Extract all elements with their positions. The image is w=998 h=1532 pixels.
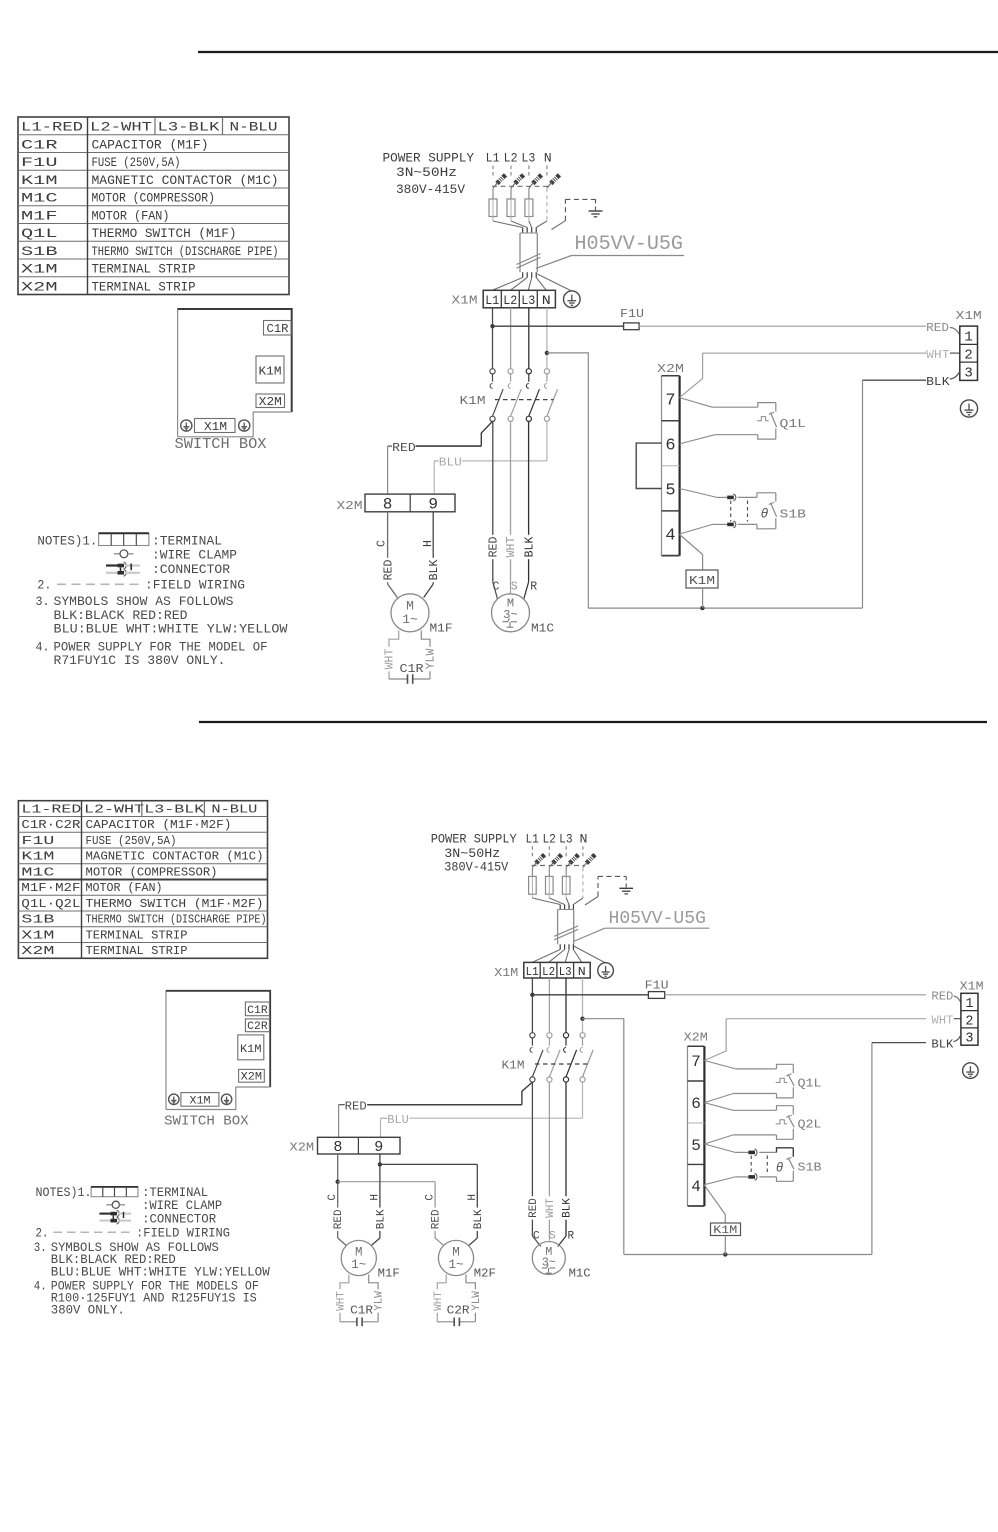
svg-text:S1B: S1B [798, 1161, 822, 1174]
svg-text:FUSE (250V,5A): FUSE (250V,5A) [86, 834, 177, 848]
svg-text:BLU: BLU [387, 1114, 409, 1127]
svg-text:L3-BLK: L3-BLK [158, 120, 220, 135]
svg-text:TERMINAL STRIP: TERMINAL STRIP [92, 262, 196, 277]
wire from N junction to coil loop (bottom) [583, 1019, 624, 1255]
svg-text:WHT: WHT [505, 537, 518, 558]
svg-text:MAGNETIC CONTACTOR (M1C): MAGNETIC CONTACTOR (M1C) [86, 850, 264, 864]
earth symbol left of X1M box [181, 420, 192, 431]
svg-text:L1: L1 [486, 151, 500, 166]
capacitor C1R wiring (bottom) [340, 1274, 349, 1321]
contactor K1M box in switch box (bottom) [238, 1035, 264, 1060]
svg-text:4.: 4. [34, 1279, 47, 1293]
svg-text:L1: L1 [525, 833, 539, 847]
wire RED from F1U to X1M-1 (bottom) [665, 994, 926, 996]
svg-text:RED: RED [926, 321, 949, 335]
svg-text:R71FUY1C IS 380V ONLY.: R71FUY1C IS 380V ONLY. [54, 653, 226, 668]
svg-text:L1-RED: L1-RED [21, 120, 83, 135]
svg-text:8: 8 [383, 495, 393, 513]
svg-text:9: 9 [428, 495, 438, 513]
svg-text:M1C: M1C [21, 191, 58, 206]
svg-text:5: 5 [691, 1137, 701, 1155]
earth terminal beside X1M (bottom) [598, 963, 614, 979]
wire N from X1M down to contactor (top) [546, 308, 548, 369]
svg-text:RED: RED [528, 1198, 540, 1218]
field wiring dashed bus (top) [492, 185, 550, 187]
field wiring lead L2 (bottom) [548, 846, 550, 856]
svg-text:R: R [530, 581, 537, 594]
svg-text:RED: RED [487, 537, 500, 558]
svg-text:L2: L2 [542, 965, 555, 979]
fan motor M1F (bottom) [341, 1240, 376, 1275]
wire N from X1M down to contactor (bottom) [582, 978, 584, 1033]
svg-text:K1M: K1M [259, 366, 282, 379]
svg-text:RED: RED [931, 991, 953, 1004]
connector symbol [106, 564, 120, 566]
svg-text:K1M: K1M [240, 1044, 262, 1056]
svg-text:RED: RED [392, 441, 416, 455]
fan motor M1F (top) [391, 594, 429, 632]
wire L1 from X1M down to contactor (bottom) [531, 978, 533, 1033]
svg-text:L3: L3 [559, 833, 573, 847]
capacitor C2R wiring (bottom) [437, 1274, 446, 1321]
svg-text:4: 4 [691, 1178, 701, 1196]
supply cable sheath (top) [493, 221, 523, 228]
svg-text:N: N [580, 833, 588, 847]
earth symbol right of X1M box (bottom) [221, 1094, 231, 1104]
svg-text:X2M: X2M [657, 362, 684, 376]
wire RED from contactor to X2M-8 (top) [481, 421, 492, 446]
svg-text:K1M: K1M [460, 394, 486, 408]
terminal X2M box in switch box [256, 394, 285, 408]
svg-text:X1M: X1M [204, 421, 227, 434]
svg-text:5: 5 [665, 482, 675, 501]
svg-text:Q1L·Q2L: Q1L·Q2L [21, 897, 80, 911]
wire C RED from X2M-8 to fan M1F (bottom) [337, 1154, 339, 1238]
svg-text:N: N [544, 151, 552, 166]
svg-text:1~: 1~ [448, 1258, 463, 1272]
svg-text:S1B: S1B [21, 244, 58, 259]
svg-text:WHT: WHT [545, 1198, 557, 1218]
svg-text:S1B: S1B [21, 913, 54, 927]
svg-text:MAGNETIC CONTACTOR (M1C): MAGNETIC CONTACTOR (M1C) [92, 173, 279, 188]
svg-text:X2M: X2M [337, 499, 363, 513]
field wiring lead L2 (top) [510, 166, 512, 177]
svg-text:H: H [370, 1194, 382, 1201]
svg-text:X2M: X2M [21, 279, 58, 294]
svg-text:H: H [467, 1194, 479, 1201]
node L1/F1U junction (bottom) [530, 993, 534, 997]
svg-text:N-BLU: N-BLU [230, 120, 278, 135]
svg-text:1: 1 [964, 330, 972, 346]
svg-text:C1R: C1R [400, 662, 424, 676]
svg-text:FUSE (250V,5A): FUSE (250V,5A) [92, 155, 181, 170]
svg-text:YLW: YLW [374, 1291, 386, 1311]
svg-text:C: C [376, 540, 389, 547]
svg-text:NOTES)1.: NOTES)1. [36, 1186, 92, 1200]
capacitor C1R box in switch box [264, 321, 292, 336]
svg-text:6: 6 [665, 436, 675, 455]
svg-text:YLW: YLW [471, 1291, 483, 1311]
svg-text:YLW: YLW [425, 649, 438, 670]
svg-text:F1U: F1U [620, 307, 644, 321]
svg-text:RED: RED [333, 1209, 345, 1229]
svg-text::FIELD WIRING: :FIELD WIRING [136, 1226, 230, 1240]
fuse F1U (bottom) [532, 994, 648, 996]
svg-text:X1M: X1M [956, 309, 982, 323]
svg-text:WHT: WHT [336, 1291, 348, 1311]
svg-text:K1M: K1M [21, 850, 54, 864]
svg-text:BLU:BLUE WHT:WHITE YLW:YELLOW: BLU:BLUE WHT:WHITE YLW:YELLOW [51, 1266, 270, 1280]
svg-text:2.: 2. [36, 1226, 49, 1240]
svg-text:L2-WHT: L2-WHT [84, 802, 144, 816]
svg-text:WHT: WHT [384, 649, 397, 670]
wire WHT from X1M-2 to X2M-7 (top) [703, 352, 926, 354]
svg-text:θ: θ [776, 1161, 784, 1175]
thermo switch S1B with connectors (bottom) [704, 1144, 735, 1152]
svg-text:N: N [542, 293, 551, 308]
svg-text:R: R [567, 1231, 574, 1243]
wire from N junction to coil loop (top) [547, 353, 588, 608]
wire BLU from contactor N to X2M-9 (top) [546, 421, 548, 461]
svg-text:CAPACITOR (M1F·M2F): CAPACITOR (M1F·M2F) [86, 818, 232, 832]
legend table frame [18, 801, 267, 959]
svg-text:M1F: M1F [21, 208, 58, 223]
switch box outline (top diagram) [178, 309, 292, 437]
svg-text:L3: L3 [559, 965, 572, 979]
svg-text:WHT: WHT [931, 1014, 953, 1027]
svg-text:C2R: C2R [447, 1305, 470, 1318]
svg-text:X2M: X2M [241, 1072, 263, 1084]
svg-text:3.: 3. [36, 594, 50, 609]
capacitor C1R box in switch box (bottom) [245, 1002, 269, 1016]
X2M link bracket 6-5 (top) [636, 443, 661, 488]
svg-text:C1R: C1R [267, 323, 289, 336]
top horizontal rule [198, 51, 998, 53]
svg-text:BLK: BLK [931, 1038, 953, 1051]
protective earth dashed path (bottom) [597, 876, 599, 896]
svg-text:BLK: BLK [375, 1209, 387, 1229]
coil return wire bottom (bottom) [624, 1254, 872, 1256]
switch box outline (bottom diagram) [166, 991, 270, 1110]
node K1M coil junction (top) [700, 606, 704, 610]
field wiring lead L1 (bottom) [531, 846, 533, 856]
svg-text:RED: RED [431, 1209, 443, 1229]
field wiring lead L1 (top) [492, 166, 494, 177]
terminal X2M box in switch box (bottom) [239, 1069, 265, 1082]
contactor coil K1M (top) [680, 535, 703, 555]
wire H BLK from X2M-9 to fan motor (top) [432, 512, 434, 584]
svg-text:7: 7 [665, 391, 675, 410]
svg-text:H05VV-U5G: H05VV-U5G [575, 233, 684, 256]
svg-text:BLK: BLK [428, 560, 441, 581]
svg-text:BLK: BLK [926, 375, 950, 389]
svg-text:X1M: X1M [21, 928, 54, 942]
svg-text::TERMINAL: :TERMINAL [142, 1186, 208, 1200]
node L1/F1U junction (top) [490, 324, 494, 328]
svg-text:X2M: X2M [21, 944, 54, 958]
svg-text:L3: L3 [521, 293, 535, 308]
disconnect terminal L1 (bottom) [531, 867, 533, 876]
earth terminal below X1M (top) [960, 400, 977, 417]
svg-text:MOTOR (COMPRESSOR): MOTOR (COMPRESSOR) [92, 191, 216, 206]
svg-text:X1M: X1M [960, 981, 984, 994]
svg-text:3: 3 [964, 365, 972, 381]
earth symbol left of X1M box (bottom) [169, 1094, 179, 1104]
svg-text:X1M: X1M [494, 967, 518, 980]
svg-text:MOTOR (FAN): MOTOR (FAN) [86, 881, 163, 895]
svg-text:NOTES)1.: NOTES)1. [37, 534, 97, 549]
middle horizontal rule [199, 721, 987, 723]
svg-text:M1C: M1C [21, 865, 54, 879]
svg-text:X1M: X1M [190, 1095, 211, 1107]
capacitor C2R (bottom) [453, 1318, 455, 1327]
cable fan-out to X1M (top) [522, 272, 524, 277]
supply cable sheath (bottom) [532, 898, 560, 905]
magnetic contactor K1M main contacts (bottom) [530, 1033, 535, 1038]
wire WHT from X1M-2 to X2M-7 (bottom) [726, 1018, 926, 1020]
svg-text:Q1L: Q1L [780, 417, 807, 431]
wire BLK from riser to X1M-3 (top) [863, 379, 927, 381]
magnetic contactor K1M main contacts (top) [490, 369, 495, 374]
svg-text:M2F: M2F [474, 1268, 496, 1281]
svg-text:6: 6 [691, 1095, 701, 1113]
svg-text:MOTOR (COMPRESSOR): MOTOR (COMPRESSOR) [86, 865, 218, 879]
field wiring lead N (top) [546, 166, 548, 177]
svg-text:C2R: C2R [247, 1021, 268, 1033]
svg-text:L3: L3 [521, 151, 535, 166]
svg-text:S: S [511, 581, 518, 594]
wire RED from contactor to X2M-8 (bottom) [522, 1082, 533, 1105]
svg-text:3: 3 [965, 1032, 973, 1047]
svg-text:K1M: K1M [502, 1059, 525, 1072]
svg-text:2: 2 [964, 347, 972, 363]
svg-text:L2: L2 [542, 833, 556, 847]
svg-text::TERMINAL: :TERMINAL [152, 534, 222, 549]
svg-text:3N~50Hz: 3N~50Hz [396, 165, 457, 180]
svg-text:H: H [422, 540, 435, 547]
svg-text:4: 4 [665, 527, 675, 546]
svg-text:380V-415V: 380V-415V [396, 182, 465, 197]
svg-text:F1U: F1U [21, 834, 54, 848]
earth terminal below X1M (bottom) [963, 1063, 979, 1079]
svg-text:L2-WHT: L2-WHT [90, 120, 152, 135]
thermo switch Q1L (top) [680, 398, 713, 408]
svg-text:S: S [549, 1231, 556, 1243]
svg-text:CAPACITOR (M1F): CAPACITOR (M1F) [92, 137, 209, 152]
contactor K1M box in switch box [256, 356, 284, 383]
svg-text:TERMINAL STRIP: TERMINAL STRIP [86, 944, 188, 958]
svg-text:9: 9 [374, 1139, 383, 1156]
wire C RED branch to fan M2F (bottom) [338, 1181, 435, 1183]
thermo switch Q1L (bottom) [704, 1061, 735, 1069]
thermo switch S1B with connectors (top) [680, 489, 717, 498]
svg-text:N-BLU: N-BLU [211, 802, 257, 816]
wire L1 from X1M down to contactor (top) [492, 308, 494, 369]
svg-text:θ: θ [761, 507, 769, 522]
node N branch junction (top) [545, 351, 549, 355]
svg-text:380V-415V: 380V-415V [444, 861, 508, 875]
wire BLK riser to X1M-3 (top) [862, 380, 864, 608]
svg-text:Q1L: Q1L [21, 226, 58, 241]
cable fan-out to X1M (bottom) [559, 944, 561, 949]
svg-text:L1-RED: L1-RED [21, 802, 81, 816]
svg-text:7: 7 [691, 1053, 701, 1071]
svg-text:C: C [493, 581, 500, 594]
svg-text:SWITCH BOX: SWITCH BOX [175, 437, 267, 453]
svg-text:K1M: K1M [713, 1225, 737, 1237]
svg-text:4.: 4. [36, 639, 50, 654]
fan motor M2F (bottom) [438, 1240, 473, 1275]
svg-text:SWITCH BOX: SWITCH BOX [164, 1114, 249, 1130]
wire L3 from X1M down to contactor (bottom) [565, 978, 567, 1033]
svg-text:C1R·C2R: C1R·C2R [21, 818, 80, 832]
svg-text::CONNECTOR: :CONNECTOR [142, 1213, 216, 1227]
field wiring lead L3 (top) [528, 166, 530, 177]
fuse F1U (top) [493, 325, 624, 327]
svg-text:H05VV-U5G: H05VV-U5G [609, 908, 706, 929]
svg-text:L2: L2 [504, 151, 518, 166]
svg-text:BLK: BLK [473, 1209, 485, 1229]
wire L3 from X1M down to contactor (top) [528, 308, 530, 369]
svg-text::WIRE CLAMP: :WIRE CLAMP [142, 1199, 222, 1213]
svg-text:BLU: BLU [439, 456, 462, 470]
svg-text:THERMO SWITCH (DISCHARGE PIPE): THERMO SWITCH (DISCHARGE PIPE) [92, 244, 279, 259]
svg-text:3~: 3~ [503, 608, 517, 622]
svg-text:K1M: K1M [689, 575, 715, 588]
svg-text:L1: L1 [526, 965, 539, 979]
svg-text:X2M: X2M [259, 396, 282, 409]
svg-text:X2M: X2M [290, 1142, 315, 1155]
svg-text:THERMO SWITCH (DISCHARGE PIPE): THERMO SWITCH (DISCHARGE PIPE) [86, 913, 267, 927]
svg-text:L2: L2 [503, 293, 517, 308]
contactor coil K1M (bottom) [704, 1185, 725, 1214]
earth symbol at supply (top) [589, 210, 603, 212]
svg-text:Q1L: Q1L [798, 1077, 822, 1090]
svg-text:BLU:BLUE WHT:WHITE YLW:YELLOW: BLU:BLUE WHT:WHITE YLW:YELLOW [54, 621, 288, 636]
svg-text:F1U: F1U [21, 155, 58, 170]
capacitor C1R wiring (top) [389, 631, 399, 680]
disconnect terminal L2 (bottom) [548, 867, 550, 876]
node branch to M2F H (bottom) [378, 1162, 382, 1166]
svg-text:Q2L: Q2L [798, 1119, 822, 1132]
wire RED from F1U to X1M-1 (top) [639, 325, 926, 327]
svg-text:3.: 3. [34, 1241, 47, 1255]
svg-text:C1R: C1R [350, 1305, 373, 1318]
svg-text:X1M: X1M [21, 262, 58, 277]
svg-text:M1C: M1C [531, 621, 554, 635]
capacitor C1R (top) [407, 674, 409, 684]
disconnect terminal L2 (top) [510, 188, 512, 199]
svg-text:POWER SUPPLY: POWER SUPPLY [383, 151, 475, 166]
svg-text:WHT: WHT [433, 1291, 445, 1311]
wire clamp symbol (bottom) [106, 1204, 112, 1206]
wire L2 from X1M down to contactor (bottom) [548, 978, 550, 1033]
thermo switch Q2L (bottom) [704, 1103, 733, 1111]
svg-text:M1F: M1F [430, 621, 453, 635]
svg-text:L3-BLK: L3-BLK [144, 802, 205, 816]
disconnect terminal L3 (top) [528, 188, 530, 199]
svg-text:L1: L1 [485, 293, 499, 308]
svg-text:M1F·M2F: M1F·M2F [21, 881, 80, 895]
wire BLK riser to X1M-3 (bottom) [871, 1043, 873, 1255]
svg-text:C: C [327, 1194, 339, 1201]
svg-text:1~: 1~ [351, 1258, 366, 1272]
svg-text:S1B: S1B [780, 508, 807, 522]
svg-text:C1R: C1R [247, 1005, 268, 1017]
wire C RED from X2M-8 to fan motor (top) [387, 512, 389, 584]
node N branch junction (bottom) [580, 1017, 584, 1021]
svg-text::WIRE CLAMP: :WIRE CLAMP [152, 548, 237, 563]
neutral dashed lead (bottom) [582, 867, 584, 898]
svg-text:1: 1 [965, 997, 973, 1012]
coil return wire bottom (top) [588, 607, 862, 609]
svg-text:TERMINAL STRIP: TERMINAL STRIP [92, 279, 196, 294]
node K1M coil junction (bottom) [723, 1252, 727, 1256]
svg-text:M1F: M1F [378, 1268, 400, 1281]
node branch to M2F C (bottom) [336, 1180, 340, 1184]
svg-text:C: C [533, 1231, 540, 1243]
compressor motor M1C (bottom) [532, 1242, 565, 1275]
field wiring lead L3 (bottom) [565, 846, 567, 856]
svg-text:C: C [425, 1194, 437, 1201]
disconnect terminal L3 (bottom) [565, 867, 567, 876]
capacitor C2R box in switch box (bottom) [245, 1019, 269, 1032]
svg-text:MOTOR (FAN): MOTOR (FAN) [92, 208, 170, 223]
svg-text:3N~50Hz: 3N~50Hz [444, 847, 500, 861]
legend table frame [18, 117, 289, 295]
svg-text:380V ONLY.: 380V ONLY. [51, 1303, 125, 1317]
connector symbol (bottom) [99, 1213, 112, 1215]
svg-text:F1U: F1U [645, 980, 669, 993]
svg-text:1~: 1~ [402, 612, 418, 627]
wire BLK from riser to X1M-3 (bottom) [872, 1042, 926, 1044]
svg-text:RED: RED [382, 560, 395, 581]
compressor motor M1C (top) [492, 594, 530, 632]
svg-text:SYMBOLS SHOW AS FOLLOWS: SYMBOLS SHOW AS FOLLOWS [54, 594, 234, 609]
wire H BLK from X2M-9 to fan M1F (bottom) [379, 1154, 381, 1238]
svg-text::FIELD WIRING: :FIELD WIRING [145, 578, 245, 593]
wire L2 from X1M down to contactor (top) [510, 308, 512, 369]
terminal X1M box in switch box (bottom) [181, 1093, 219, 1107]
earth terminal beside X1M (top) [564, 291, 581, 308]
neutral dashed lead (top) [546, 188, 548, 221]
compressor wires RED WHT BLK (bottom) [531, 1082, 533, 1236]
earth symbol at supply (bottom) [619, 887, 633, 889]
wire BLU from contactor N to X2M-9 (bottom) [582, 1082, 584, 1118]
terminal X1M box in switch box [195, 419, 236, 433]
wire clamp symbol [114, 553, 120, 555]
field wiring lead N (bottom) [582, 846, 584, 856]
capacitor C1R (bottom) [356, 1318, 358, 1327]
svg-text:BLK: BLK [562, 1198, 574, 1218]
svg-text:K1M: K1M [21, 173, 58, 188]
svg-text:THERMO SWITCH (M1F): THERMO SWITCH (M1F) [92, 226, 237, 241]
svg-text:TERMINAL STRIP: TERMINAL STRIP [86, 928, 188, 942]
svg-text:2: 2 [965, 1014, 973, 1029]
svg-text:C1R: C1R [21, 137, 58, 152]
svg-text::CONNECTOR: :CONNECTOR [152, 562, 230, 577]
disconnect terminal L1 (top) [492, 188, 494, 199]
svg-text:WHT: WHT [926, 348, 950, 362]
svg-text:2.: 2. [37, 578, 51, 593]
protective earth dashed path (top) [564, 199, 566, 220]
svg-text:X1M: X1M [452, 293, 478, 307]
svg-text:BLK: BLK [523, 537, 536, 558]
svg-text:X2M: X2M [684, 1031, 708, 1044]
svg-text:POWER SUPPLY: POWER SUPPLY [431, 833, 517, 847]
svg-text:THERMO SWITCH (M1F·M2F): THERMO SWITCH (M1F·M2F) [86, 897, 264, 911]
svg-text:N: N [578, 965, 586, 979]
